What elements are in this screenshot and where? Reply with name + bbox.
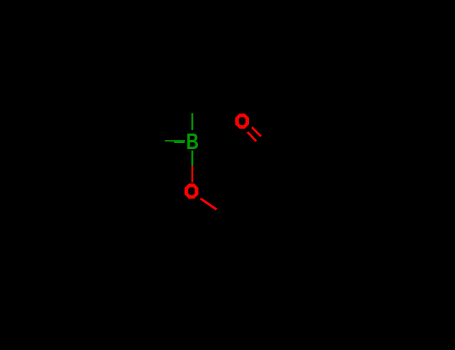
svg-text:B: B [186,130,199,155]
